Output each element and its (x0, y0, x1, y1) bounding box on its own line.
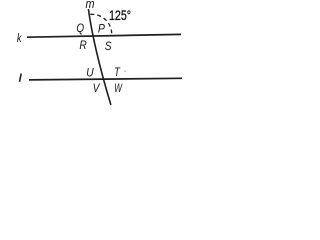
line k (27, 34, 181, 37)
speck near T (124, 71, 126, 73)
svg-text:P: P (98, 23, 105, 36)
svg-text:T: T (114, 66, 121, 79)
label l (20, 74, 22, 82)
svg-text:U: U (86, 67, 94, 80)
svg-text:Q: Q (76, 22, 84, 35)
svg-text:m: m (86, 0, 95, 11)
dashed angle arc (90, 14, 111, 33)
line l (29, 78, 182, 80)
transversal m (88, 9, 111, 105)
svg-text:V: V (93, 82, 101, 95)
svg-text:125°: 125° (109, 8, 131, 24)
svg-text:R: R (79, 39, 86, 52)
svg-text:S: S (105, 40, 112, 53)
svg-text:k: k (17, 32, 22, 45)
svg-text:W: W (114, 82, 123, 95)
